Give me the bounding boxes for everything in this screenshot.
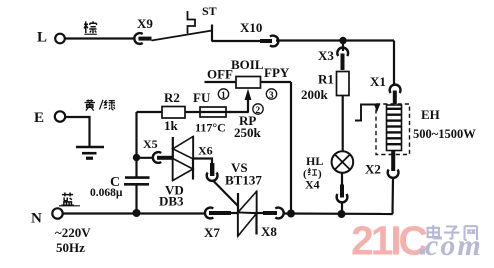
pin label 3 <box>266 89 276 101</box>
svg-text:X5: X5 <box>143 137 158 151</box>
wire FU row <box>137 111 163 113</box>
watermark 21IC <box>351 218 483 264</box>
resistor R2 <box>162 90 185 133</box>
svg-text:0.068µ: 0.068µ <box>90 187 123 199</box>
svg-text:com: com <box>425 229 483 262</box>
connector X4 <box>337 185 348 203</box>
heater EH dashed enclosure <box>376 104 410 155</box>
bottom rail N line <box>63 212 206 214</box>
terminal N <box>31 208 63 226</box>
wire RP terminal 3 horizontal <box>261 81 292 83</box>
label 蓝 (blue) <box>61 193 74 206</box>
svg-text:50Hz: 50Hz <box>56 240 85 255</box>
terminal L <box>37 30 65 46</box>
svg-text:X8: X8 <box>261 224 277 239</box>
svg-text:117°C: 117°C <box>195 121 226 135</box>
pin label 1 <box>218 89 228 101</box>
wire R1 to HL <box>342 96 344 152</box>
svg-text:EH: EH <box>421 107 440 122</box>
svg-text:R2: R2 <box>164 90 180 105</box>
connector X10 <box>240 20 278 46</box>
svg-text:BOIL: BOIL <box>231 57 264 72</box>
svg-text:X1: X1 <box>370 74 386 89</box>
wire RP terminal 1 (OFF, open) <box>205 81 237 83</box>
svg-text:OFF: OFF <box>207 67 233 82</box>
svg-text:X3: X3 <box>318 48 334 63</box>
svg-text:1: 1 <box>221 91 226 101</box>
svg-text:X10: X10 <box>240 20 262 35</box>
wire diac to X6 corner <box>193 159 212 165</box>
wire node to X5 <box>137 157 155 159</box>
svg-text:X6: X6 <box>198 144 213 158</box>
heater element EH <box>387 105 477 151</box>
wire gate diagonal X6 to triac <box>213 181 238 207</box>
connector X3 <box>318 48 348 70</box>
wire X2 to bottom-right corner <box>391 177 394 214</box>
svg-text:3: 3 <box>269 91 274 101</box>
lamp HL <box>305 151 353 191</box>
underline of 蓝 <box>59 205 80 207</box>
svg-text:250k: 250k <box>234 125 262 140</box>
wire C branch vertical <box>135 185 137 213</box>
node junction N/C <box>133 209 141 217</box>
wire L to X9 <box>65 37 134 39</box>
svg-text:X7: X7 <box>204 225 220 240</box>
svg-text:FPY: FPY <box>264 65 290 80</box>
watermark dot of .com <box>420 249 425 255</box>
connector X5 <box>143 137 173 163</box>
diac VD <box>159 136 193 209</box>
wire ST to X10 <box>212 40 261 42</box>
svg-text:HL: HL <box>306 154 323 168</box>
svg-text:ST: ST <box>202 4 217 18</box>
ground <box>76 147 104 158</box>
svg-text:500~1500W: 500~1500W <box>413 127 476 141</box>
triac VS <box>225 160 262 237</box>
connector X9 <box>134 16 153 44</box>
svg-text:BT137: BT137 <box>225 173 262 188</box>
switch ST blade <box>152 31 213 41</box>
svg-text:DB3: DB3 <box>159 194 184 209</box>
wire junction to X3 <box>342 41 344 52</box>
svg-text:R1: R1 <box>318 72 334 87</box>
potentiometer RP body <box>207 57 290 140</box>
wire RP terminal 3 vertical <box>290 82 292 214</box>
label 黄/绿 (yellow/green) <box>84 100 115 111</box>
svg-text:FU: FU <box>193 90 211 105</box>
wire C up to X5 node <box>135 112 137 178</box>
switch ST actuator <box>188 11 196 34</box>
potentiometer RP wiper <box>245 89 252 112</box>
node junction top (X3 tap) <box>339 37 346 44</box>
svg-text:2: 2 <box>255 106 260 116</box>
watermark 电子网 <box>428 225 477 240</box>
svg-text:21IC: 21IC <box>351 218 427 264</box>
fuse FU <box>193 90 226 135</box>
wire E to ground <box>65 117 89 146</box>
connector X7 <box>204 208 238 240</box>
connector X1 <box>370 74 401 104</box>
resistor R1 <box>301 72 349 103</box>
svg-text:): ) <box>318 168 322 180</box>
connector X8 <box>261 208 284 239</box>
connector X2 <box>365 150 399 178</box>
wire X4 to bottom rail <box>341 202 343 215</box>
svg-text:E: E <box>34 110 44 126</box>
node junction RP3/rail <box>287 210 295 218</box>
svg-text:X2: X2 <box>365 162 381 177</box>
svg-text:200k: 200k <box>301 87 329 102</box>
label (红) red <box>303 168 322 180</box>
node junction X5 tap <box>133 154 140 161</box>
svg-text:N: N <box>31 211 42 227</box>
wire HL to X4 <box>341 173 343 186</box>
wire right branch down to X1 <box>393 41 395 87</box>
terminal E <box>34 110 65 126</box>
svg-text:(: ( <box>303 168 307 180</box>
label 棕 (brown) <box>84 21 97 34</box>
svg-text:X9: X9 <box>137 16 153 31</box>
node junction bottom (X4 tap) <box>338 210 346 218</box>
capacitor C <box>90 175 150 199</box>
thermostat coupling arrow <box>355 104 380 121</box>
switch ST contact <box>211 25 213 42</box>
svg-text:~220V: ~220V <box>55 225 91 240</box>
connector X6 <box>198 144 218 181</box>
wire X10 to top-right corner <box>276 39 394 41</box>
pin label 2 <box>253 104 263 116</box>
svg-text:1k: 1k <box>164 118 179 133</box>
wire triac to X8 <box>257 212 267 214</box>
svg-text:L: L <box>37 30 47 46</box>
